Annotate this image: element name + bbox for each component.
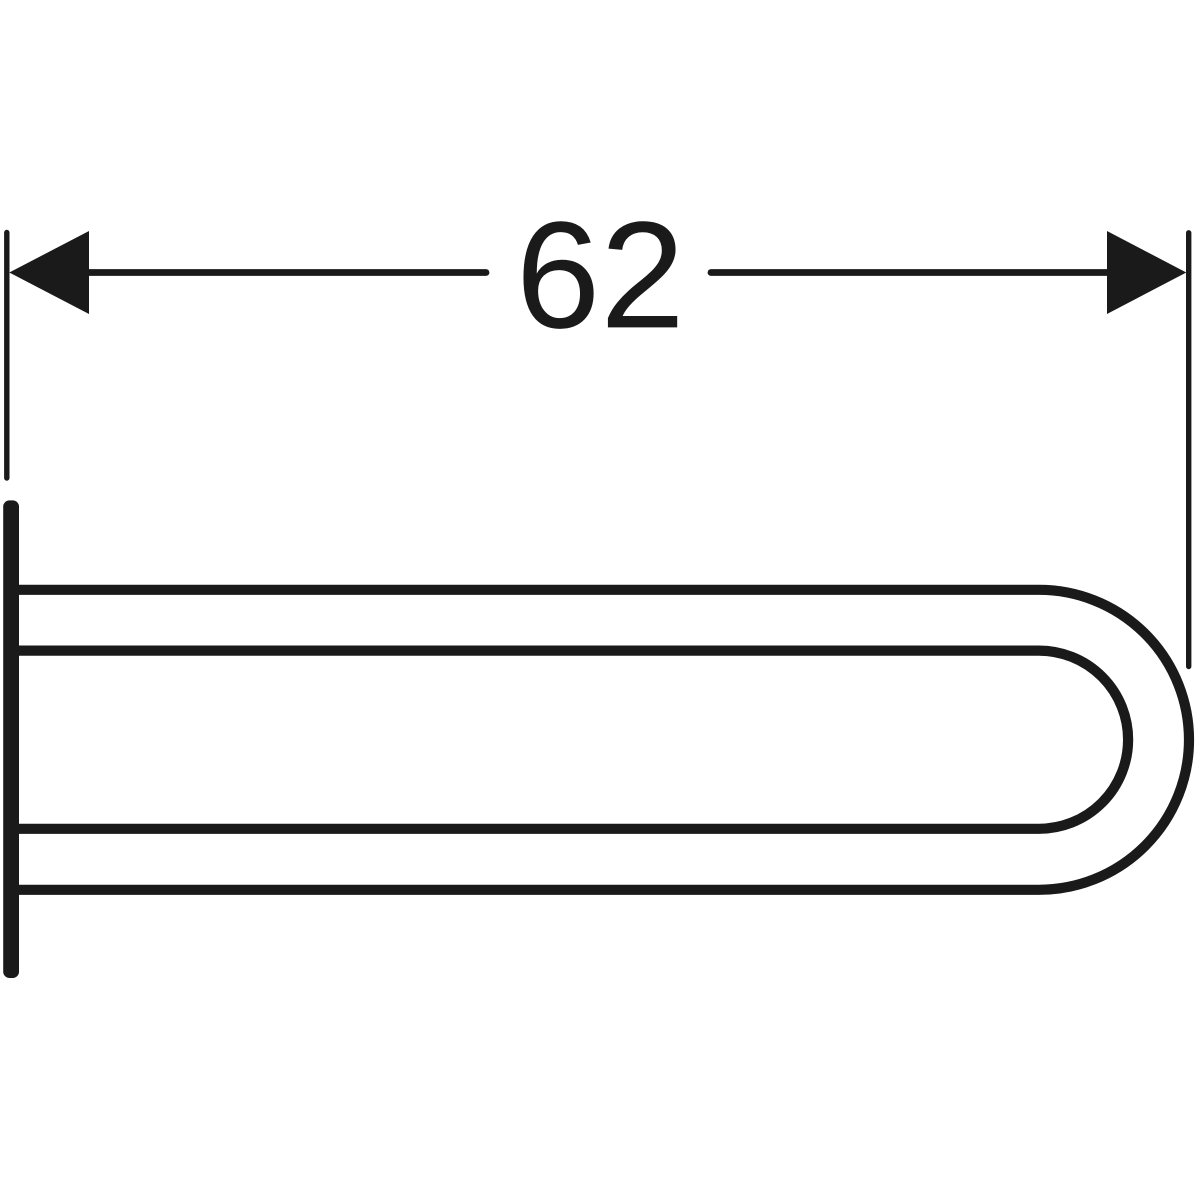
grab bar top tube lower line [18,645,1039,655]
dimension line right segment [711,269,1140,276]
svg-text:62: 62 [516,190,685,360]
grab bar bottom tube lower line [18,885,1039,895]
wall mounting plate [3,500,19,978]
grab bar U-bend outer arc [1039,590,1189,890]
extension line left [4,233,9,479]
arrowhead left [9,231,89,314]
grab bar top tube upper line [18,585,1039,595]
grab bar U-bend inner arc [1039,651,1128,829]
extension line right [1186,233,1191,667]
arrowhead right [1107,231,1186,314]
grab bar bottom tube upper line [18,824,1039,834]
dimension line left segment [60,269,486,276]
